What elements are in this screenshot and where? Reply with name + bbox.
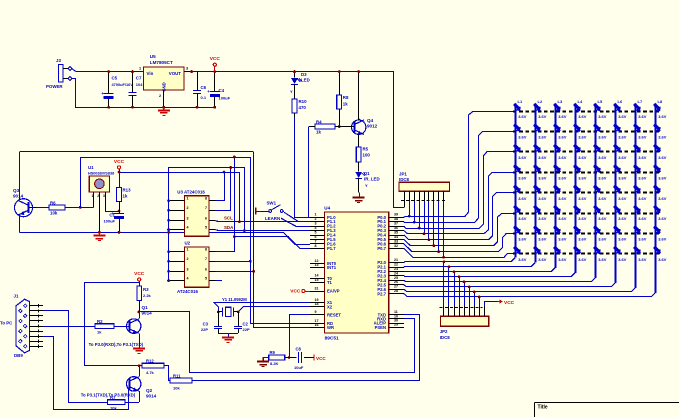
svg-text:R2: R2 xyxy=(97,319,103,324)
svg-text:18: 18 xyxy=(315,302,319,306)
svg-text:C1: C1 xyxy=(109,213,115,218)
svg-text:1k: 1k xyxy=(343,102,348,107)
svg-text:+: + xyxy=(101,91,104,96)
svg-text:Q3: Q3 xyxy=(13,188,20,193)
svg-text:3.6V: 3.6V xyxy=(658,114,667,119)
svg-text:3.6V: 3.6V xyxy=(598,114,607,119)
svg-text:3.6V: 3.6V xyxy=(538,155,547,160)
svg-text:VCC: VCC xyxy=(114,159,125,165)
svg-text:4: 4 xyxy=(315,226,317,230)
svg-text:3.6V: 3.6V xyxy=(578,135,587,140)
svg-text:3.6V: 3.6V xyxy=(598,135,607,140)
svg-text:R12: R12 xyxy=(146,359,154,364)
svg-text:C8: C8 xyxy=(296,347,302,352)
svg-text:L4: L4 xyxy=(578,99,583,104)
svg-text:3.6V: 3.6V xyxy=(518,216,527,221)
svg-text:LEARN: LEARN xyxy=(265,216,280,221)
svg-text:To P3.1(TXD),To P3.0(RXD): To P3.1(TXD),To P3.0(RXD) xyxy=(81,392,136,397)
svg-text:1k: 1k xyxy=(316,130,321,135)
svg-text:3.6V: 3.6V xyxy=(598,175,607,180)
svg-text:PSEN: PSEN xyxy=(375,325,386,330)
svg-text:Q2: Q2 xyxy=(146,388,153,393)
svg-text:R6: R6 xyxy=(50,201,56,206)
svg-text:3.6V: 3.6V xyxy=(558,196,567,201)
svg-text:5: 5 xyxy=(315,230,317,234)
svg-text:4: 4 xyxy=(187,277,189,281)
svg-text:EA/VP: EA/VP xyxy=(327,289,340,294)
svg-text:R13: R13 xyxy=(123,188,132,193)
svg-text:3.6V: 3.6V xyxy=(518,135,527,140)
svg-text:8: 8 xyxy=(315,244,317,248)
svg-text:10uF: 10uF xyxy=(294,365,304,370)
svg-text:3.6V: 3.6V xyxy=(538,196,547,201)
svg-text:IR_LED: IR_LED xyxy=(364,177,380,182)
svg-text:L7: L7 xyxy=(638,99,643,104)
svg-text:37: 37 xyxy=(394,222,398,226)
svg-text:9014: 9014 xyxy=(146,394,157,399)
svg-text:U2: U2 xyxy=(185,240,191,245)
svg-text:7: 7 xyxy=(315,239,317,243)
svg-text:1k: 1k xyxy=(97,330,102,335)
svg-text:33: 33 xyxy=(394,239,398,243)
svg-text:Q1: Q1 xyxy=(142,305,149,310)
svg-text:16: 16 xyxy=(315,323,319,327)
svg-text:U5: U5 xyxy=(150,54,156,59)
svg-text:SW1: SW1 xyxy=(267,201,277,206)
svg-text:HS0038/VS838: HS0038/VS838 xyxy=(88,172,114,176)
svg-text:1: 1 xyxy=(139,67,141,71)
svg-text:3.6V: 3.6V xyxy=(578,155,587,160)
svg-text:3.6V: 3.6V xyxy=(578,196,587,201)
svg-text:3.6V: 3.6V xyxy=(538,135,547,140)
svg-text:39: 39 xyxy=(394,213,398,217)
svg-text:3.6V: 3.6V xyxy=(558,216,567,221)
svg-text:D1: D1 xyxy=(364,171,370,176)
svg-text:3.6V: 3.6V xyxy=(538,216,547,221)
svg-text:27: 27 xyxy=(394,285,398,289)
svg-text:2: 2 xyxy=(97,194,99,198)
svg-text:U1: U1 xyxy=(88,165,94,170)
svg-text:C6: C6 xyxy=(201,85,207,90)
svg-text:100uF: 100uF xyxy=(103,219,115,224)
svg-text:3.6V: 3.6V xyxy=(538,114,547,119)
svg-text:C2: C2 xyxy=(243,322,249,327)
svg-text:8: 8 xyxy=(205,197,207,201)
svg-text:3.6V: 3.6V xyxy=(598,257,607,262)
svg-text:1: 1 xyxy=(315,213,317,217)
svg-text:3.6V: 3.6V xyxy=(558,237,567,242)
svg-text:To P3.0(RXD),To P3.1(TXD): To P3.0(RXD),To P3.1(TXD) xyxy=(89,342,144,347)
svg-text:LM7805CT: LM7805CT xyxy=(150,60,173,65)
svg-text:36: 36 xyxy=(394,226,398,230)
svg-text:INT1: INT1 xyxy=(327,265,337,270)
svg-text:WR: WR xyxy=(327,325,334,330)
svg-text:C7: C7 xyxy=(136,76,142,81)
svg-text:U4: U4 xyxy=(324,206,330,211)
svg-text:3.6V: 3.6V xyxy=(618,216,627,221)
svg-text:3.6V: 3.6V xyxy=(518,237,527,242)
svg-text:89C51: 89C51 xyxy=(325,336,339,342)
svg-text:P0.7: P0.7 xyxy=(377,246,386,251)
svg-text:3.6V: 3.6V xyxy=(518,114,527,119)
svg-text:3.6V: 3.6V xyxy=(638,257,647,262)
svg-text:29: 29 xyxy=(394,323,398,327)
svg-text:3.6V: 3.6V xyxy=(638,155,647,160)
svg-text:1: 1 xyxy=(187,248,189,252)
svg-text:JP2: JP2 xyxy=(440,329,448,334)
svg-text:3: 3 xyxy=(187,216,189,220)
svg-text:9012: 9012 xyxy=(367,124,378,129)
svg-text:15: 15 xyxy=(315,278,319,282)
svg-text:21: 21 xyxy=(394,258,398,262)
svg-text:D3: D3 xyxy=(301,72,307,77)
svg-text:JP1: JP1 xyxy=(399,171,407,176)
svg-text:J1: J1 xyxy=(14,294,19,299)
svg-text:+: + xyxy=(207,89,210,94)
svg-text:P1.7: P1.7 xyxy=(327,246,336,251)
svg-text:Y1 11.0592M: Y1 11.0592M xyxy=(222,297,247,302)
svg-text:R10: R10 xyxy=(299,99,308,104)
svg-text:22P: 22P xyxy=(243,327,250,332)
svg-text:3.6V: 3.6V xyxy=(658,237,667,242)
svg-text:3.6V: 3.6V xyxy=(618,196,627,201)
svg-text:R3: R3 xyxy=(143,287,149,292)
svg-text:Y: Y xyxy=(290,89,293,94)
svg-text:26: 26 xyxy=(394,280,398,284)
svg-text:3: 3 xyxy=(103,194,105,198)
svg-text:100: 100 xyxy=(363,153,371,158)
svg-text:6: 6 xyxy=(205,216,207,220)
svg-text:104: 104 xyxy=(136,82,143,87)
svg-text:2: 2 xyxy=(187,257,189,261)
svg-text:13: 13 xyxy=(315,263,319,267)
svg-text:38: 38 xyxy=(394,217,398,221)
svg-text:3.6V: 3.6V xyxy=(578,216,587,221)
svg-text:8: 8 xyxy=(205,248,207,252)
svg-text:7: 7 xyxy=(205,206,207,210)
svg-text:VCC: VCC xyxy=(210,56,221,62)
svg-text:3.6V: 3.6V xyxy=(638,216,647,221)
svg-text:C4: C4 xyxy=(219,88,225,93)
svg-text:VOUT: VOUT xyxy=(169,71,182,76)
svg-text:3.6V: 3.6V xyxy=(638,135,647,140)
svg-text:470: 470 xyxy=(299,105,307,110)
svg-text:3.6V: 3.6V xyxy=(578,175,587,180)
svg-text:3.6V: 3.6V xyxy=(638,175,647,180)
svg-text:3.6V: 3.6V xyxy=(638,237,647,242)
svg-text:22: 22 xyxy=(394,262,398,266)
svg-text:22P: 22P xyxy=(201,327,208,332)
svg-text:2: 2 xyxy=(315,217,317,221)
svg-text:3.6V: 3.6V xyxy=(598,216,607,221)
svg-text:J3: J3 xyxy=(56,58,61,63)
svg-text:3.6V: 3.6V xyxy=(658,135,667,140)
svg-text:3.6V: 3.6V xyxy=(598,196,607,201)
svg-text:R4: R4 xyxy=(316,120,322,125)
svg-text:3.6V: 3.6V xyxy=(518,196,527,201)
svg-text:3.6V: 3.6V xyxy=(538,237,547,242)
svg-text:2: 2 xyxy=(187,206,189,210)
svg-text:5: 5 xyxy=(205,226,207,230)
svg-text:L8: L8 xyxy=(658,99,663,104)
svg-text:3.6V: 3.6V xyxy=(618,237,627,242)
svg-text:RESET: RESET xyxy=(327,312,341,317)
svg-text:10k: 10k xyxy=(173,386,180,391)
svg-text:To PC: To PC xyxy=(0,321,13,326)
svg-text:Y: Y xyxy=(365,183,368,188)
svg-text:L5: L5 xyxy=(598,99,603,104)
svg-text:3.6V: 3.6V xyxy=(578,114,587,119)
svg-text:9: 9 xyxy=(315,310,317,314)
svg-text:6: 6 xyxy=(205,267,207,271)
svg-text:IDC8: IDC8 xyxy=(399,177,410,182)
svg-text:L1: L1 xyxy=(518,99,523,104)
svg-text:VCC: VCC xyxy=(290,289,301,295)
svg-text:9014: 9014 xyxy=(13,194,24,199)
svg-text:3.6V: 3.6V xyxy=(518,155,527,160)
svg-text:3.6V: 3.6V xyxy=(558,175,567,180)
svg-text:3.6V: 3.6V xyxy=(638,114,647,119)
svg-text:32: 32 xyxy=(394,244,398,248)
svg-text:3.6V: 3.6V xyxy=(618,135,627,140)
svg-text:3.6V: 3.6V xyxy=(598,237,607,242)
svg-text:L3: L3 xyxy=(558,99,563,104)
svg-text:AT24C016: AT24C016 xyxy=(177,289,198,294)
svg-text:POWER: POWER xyxy=(46,84,63,89)
svg-text:R11: R11 xyxy=(173,373,181,378)
svg-text:24: 24 xyxy=(394,271,398,275)
svg-text:1: 1 xyxy=(92,194,94,198)
svg-text:LED: LED xyxy=(301,78,310,83)
svg-text:3.6V: 3.6V xyxy=(558,114,567,119)
svg-text:3.6V: 3.6V xyxy=(578,237,587,242)
svg-text:28: 28 xyxy=(394,289,398,293)
svg-text:4.7k: 4.7k xyxy=(146,370,155,375)
svg-text:C3: C3 xyxy=(203,322,209,327)
svg-text:3.6V: 3.6V xyxy=(658,155,667,160)
svg-text:VCC: VCC xyxy=(316,356,326,361)
svg-text:3.6V: 3.6V xyxy=(578,257,587,262)
svg-text:2.2k: 2.2k xyxy=(143,293,152,298)
svg-text:R5: R5 xyxy=(363,147,369,152)
svg-text:3.6V: 3.6V xyxy=(658,216,667,221)
svg-text:DB9: DB9 xyxy=(14,353,23,358)
svg-text:5: 5 xyxy=(205,277,207,281)
svg-text:4700uF/16V: 4700uF/16V xyxy=(112,82,134,87)
svg-text:31: 31 xyxy=(315,286,319,290)
svg-text:3: 3 xyxy=(315,222,317,226)
svg-text:10k: 10k xyxy=(50,211,58,216)
svg-text:SCL: SCL xyxy=(224,216,233,221)
svg-text:0.1: 0.1 xyxy=(201,95,207,100)
svg-text:3.6V: 3.6V xyxy=(598,155,607,160)
svg-text:3.6V: 3.6V xyxy=(658,175,667,180)
svg-text:100uF: 100uF xyxy=(219,96,231,101)
svg-text:6: 6 xyxy=(315,235,317,239)
svg-text:3.6V: 3.6V xyxy=(658,257,667,262)
svg-text:3.6V: 3.6V xyxy=(638,196,647,201)
svg-text:C5: C5 xyxy=(112,76,118,81)
svg-text:1k: 1k xyxy=(123,194,128,199)
svg-text:SDA: SDA xyxy=(224,225,234,230)
svg-text:L6: L6 xyxy=(618,99,623,104)
svg-text:1: 1 xyxy=(187,197,189,201)
svg-text:U3 AT24C016: U3 AT24C016 xyxy=(177,190,205,195)
svg-text:3: 3 xyxy=(186,67,188,71)
svg-text:3.6V: 3.6V xyxy=(658,196,667,201)
svg-text:T1: T1 xyxy=(327,280,333,285)
svg-text:7: 7 xyxy=(205,257,207,261)
svg-text:35: 35 xyxy=(394,230,398,234)
svg-text:Q4: Q4 xyxy=(367,118,374,123)
svg-text:3.6V: 3.6V xyxy=(558,257,567,262)
svg-text:3: 3 xyxy=(187,267,189,271)
svg-text:25: 25 xyxy=(394,276,398,280)
svg-text:VCC: VCC xyxy=(504,300,515,306)
svg-text:3.6V: 3.6V xyxy=(518,257,527,262)
svg-text:3.6V: 3.6V xyxy=(618,257,627,262)
svg-text:2: 2 xyxy=(159,94,161,98)
svg-text:Vin: Vin xyxy=(147,71,154,76)
svg-text:R8: R8 xyxy=(343,95,349,100)
svg-text:3.6V: 3.6V xyxy=(518,175,527,180)
svg-text:34: 34 xyxy=(394,235,398,239)
svg-text:IDC8: IDC8 xyxy=(440,335,451,340)
svg-text:8.2K: 8.2K xyxy=(270,361,279,366)
svg-text:X2: X2 xyxy=(327,304,333,309)
svg-text:3.6V: 3.6V xyxy=(618,175,627,180)
svg-text:3.6V: 3.6V xyxy=(618,155,627,160)
svg-text:VCC: VCC xyxy=(134,271,145,277)
svg-text:3.6V: 3.6V xyxy=(558,155,567,160)
svg-text:3.6V: 3.6V xyxy=(558,135,567,140)
svg-text:3.6V: 3.6V xyxy=(618,114,627,119)
svg-text:L2: L2 xyxy=(538,99,543,104)
svg-text:4: 4 xyxy=(187,226,189,230)
svg-text:Title: Title xyxy=(538,405,548,411)
svg-text:P2.7: P2.7 xyxy=(377,291,386,296)
svg-text:23: 23 xyxy=(394,267,398,271)
svg-text:3.6V: 3.6V xyxy=(538,257,547,262)
svg-text:R9: R9 xyxy=(270,350,276,355)
svg-text:3.6V: 3.6V xyxy=(538,175,547,180)
